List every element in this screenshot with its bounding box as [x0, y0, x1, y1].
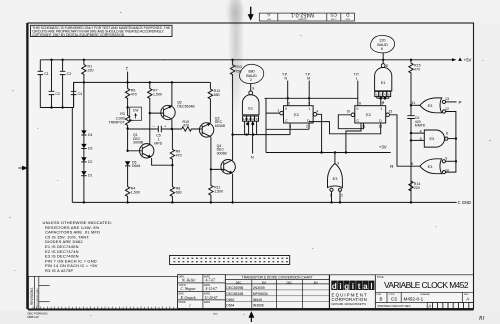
svg-text:1,500: 1,500 — [214, 190, 223, 194]
svg-text:M: M — [307, 77, 310, 81]
test point N — [282, 72, 288, 105]
svg-text:9: 9 — [445, 157, 447, 161]
svg-text:5: 5 — [308, 102, 310, 106]
svg-text:CW: CW — [133, 109, 139, 113]
svg-text:DATE: DATE — [204, 301, 211, 304]
flip-flop E2b — [347, 101, 393, 128]
capacitor C3 — [60, 60, 71, 108]
svg-text:DEC: DEC — [236, 280, 242, 284]
svg-text:D664: D664 — [226, 304, 234, 308]
resistor R1 — [82, 60, 94, 83]
svg-text:13: 13 — [389, 110, 393, 114]
nand gate E3a output P — [411, 97, 449, 113]
svg-text:R3 IS A #275P: R3 IS A #275P — [45, 268, 74, 273]
svg-text:11: 11 — [412, 101, 416, 105]
wire E2a pin4 loop to +3V — [317, 114, 322, 152]
resistor R5 — [125, 82, 136, 107]
wire E2b pin10 couple to pin11 — [338, 115, 363, 129]
svg-text:E3: E3 — [428, 165, 433, 169]
svg-text:C1: C1 — [44, 72, 49, 76]
svg-text:+5V: +5V — [464, 58, 472, 63]
svg-text:REVISIONS: REVISIONS — [30, 288, 34, 305]
svg-text:TRIMPOT: TRIMPOT — [109, 121, 126, 125]
svg-text:COPYRIGHT 1967 BY DIGITAL EQUI: COPYRIGHT 1967 BY DIGITAL EQUIPMENT CORP… — [32, 33, 125, 37]
svg-text:M452-0-1: M452-0-1 — [404, 297, 424, 302]
test point L — [354, 72, 360, 105]
node +5V arrow terminal — [452, 58, 472, 63]
wire P output — [446, 100, 462, 105]
svg-text:C. Wagner: C. Wagner — [181, 287, 197, 291]
svg-text:220: 220 — [88, 69, 94, 73]
wire ground bus — [72, 108, 456, 203]
svg-text:2N3009: 2N3009 — [253, 286, 265, 290]
svg-text:DEC6534B: DEC6534B — [177, 105, 195, 109]
svg-text:d: d — [332, 282, 337, 291]
diode D5 — [125, 160, 141, 168]
down arrow at top — [248, 7, 253, 20]
revisions sidebar — [29, 276, 178, 309]
svg-text:1,500: 1,500 — [131, 191, 140, 195]
resistor R12 — [208, 82, 220, 122]
svg-text:8: 8 — [359, 102, 361, 106]
resistor R8 — [170, 165, 181, 202]
svg-text:i: i — [352, 282, 354, 291]
svg-text:4-7-67: 4-7-67 — [206, 279, 216, 283]
svg-text:TITLE: TITLE — [377, 276, 384, 279]
svg-text:1,500: 1,500 — [153, 93, 162, 97]
svg-text:l: l — [370, 282, 372, 291]
svg-text:CS: CS — [391, 296, 397, 301]
svg-text:A: A — [428, 303, 431, 308]
svg-text:3: 3 — [337, 161, 339, 165]
svg-text:13: 13 — [445, 97, 449, 101]
wire E1b inputs to E2b pin 9 — [377, 97, 389, 106]
resistor R9 — [170, 129, 181, 165]
svg-text:6: 6 — [446, 132, 448, 136]
wire E2a pin3 stub — [289, 123, 291, 135]
svg-text:EIA: EIA — [262, 280, 266, 284]
svg-text:DRB 110: DRB 110 — [28, 315, 40, 319]
svg-text:TRANSISTOR & DIODE CONVERSION: TRANSISTOR & DIODE CONVERSION CHART — [242, 276, 313, 280]
svg-text:E2: E2 — [366, 112, 372, 117]
svg-text:220: 220 — [414, 186, 420, 190]
svg-text:E2: E2 — [294, 112, 300, 117]
svg-text:E3: E3 — [333, 177, 338, 181]
svg-text:DR | CHG NO | REV: DR | CHG NO | REV — [37, 288, 39, 308]
node T terminal — [126, 67, 129, 83]
title block — [375, 275, 473, 309]
transistor Q3 — [199, 116, 225, 169]
svg-text:12: 12 — [379, 125, 383, 129]
wire C5 to R10 — [161, 128, 181, 130]
svg-text:M452-0-1: M452-0-1 — [291, 12, 314, 18]
svg-text:IN3606: IN3606 — [253, 304, 264, 308]
svg-text:DEC6534B: DEC6534B — [226, 292, 244, 296]
svg-text:8: 8 — [411, 162, 413, 166]
svg-text:C3: C3 — [67, 72, 72, 76]
transistor Q2 — [150, 82, 196, 129]
svg-text:1: 1 — [277, 109, 279, 113]
transistor Q1 — [128, 113, 173, 165]
svg-text:11-20-67: 11-20-67 — [205, 296, 218, 300]
resistor R14 — [409, 181, 421, 191]
svg-text:6: 6 — [288, 102, 290, 106]
test point M — [305, 72, 311, 105]
svg-text:0: 0 — [357, 107, 359, 111]
svg-text:CS: CS — [330, 12, 337, 18]
left margin arrow — [19, 166, 27, 169]
svg-text:IN645: IN645 — [253, 298, 262, 302]
wire E2b pin11 to +3V — [346, 123, 361, 153]
wire cloud to E1 pin 8 — [251, 84, 255, 91]
flip-flop E2a — [277, 102, 318, 129]
svg-text:PRINTED CIRCUIT REV.: PRINTED CIRCUIT REV. — [378, 304, 412, 308]
wire oscillator output line — [233, 123, 290, 134]
wire test point bus — [265, 97, 358, 99]
capacitor C4 — [71, 82, 82, 107]
node +3V label — [379, 145, 387, 150]
svg-text:B: B — [380, 296, 383, 301]
transistor Q4 — [211, 135, 235, 203]
svg-text:E1: E1 — [248, 106, 253, 110]
svg-text:DEC3009B: DEC3009B — [226, 286, 244, 290]
svg-text:g: g — [344, 282, 349, 291]
wire E3d inputs to ground bus — [332, 192, 341, 203]
svg-text:CODE: CODE — [330, 17, 336, 19]
wire node N stub — [251, 121, 254, 159]
svg-text:1: 1 — [189, 304, 191, 308]
svg-text:4-12-67: 4-12-67 — [206, 287, 218, 291]
wire E2b pin13 to R net — [389, 115, 420, 166]
wire +3V line — [266, 152, 391, 154]
svg-text:VARIABLE CLOCK M452: VARIABLE CLOCK M452 — [384, 280, 469, 290]
wire E3d output riser — [334, 153, 336, 164]
svg-text:DEC: DEC — [287, 280, 293, 284]
svg-text:+3V: +3V — [379, 145, 387, 150]
svg-text:D664: D664 — [132, 164, 140, 168]
svg-text:EIA: EIA — [314, 280, 318, 284]
diode D4 — [81, 82, 92, 137]
svg-text:N: N — [251, 155, 254, 160]
trimpot R3 with CW box — [109, 107, 142, 128]
svg-text:C2: C2 — [55, 92, 60, 96]
resistor R15 — [409, 60, 421, 106]
svg-text:470: 470 — [414, 68, 420, 72]
resistor R11 — [209, 169, 223, 202]
capacitor C5 — [153, 123, 167, 145]
svg-text:REV.: REV. — [266, 17, 271, 19]
wire bias rail — [74, 82, 211, 107]
nand gate E3d — [328, 161, 344, 197]
svg-text:10: 10 — [347, 110, 351, 114]
resistor R4 — [125, 166, 139, 203]
nand gate E1b — [375, 53, 392, 97]
diode D1 — [81, 162, 92, 203]
svg-text:t: t — [358, 282, 361, 291]
wire capacitor bank bottom bus — [40, 107, 73, 109]
node R label — [390, 164, 394, 169]
svg-text:6: 6 — [386, 64, 388, 68]
nand gate E3b — [411, 130, 448, 148]
svg-text:1: 1 — [381, 107, 383, 111]
svg-text:MMFD: MMFD — [415, 124, 426, 128]
nand gate E3c — [411, 157, 449, 174]
svg-text:D: D — [346, 12, 350, 18]
chart pointer arrow — [249, 312, 253, 322]
zone tick marks along bottom border — [33, 307, 173, 310]
connector strip — [170, 256, 290, 265]
wire +5V top rail — [40, 59, 453, 61]
svg-text:6534B: 6534B — [215, 124, 226, 128]
svg-text:10: 10 — [445, 168, 449, 172]
svg-text:3009B: 3009B — [217, 151, 228, 155]
wire E3b output to common net — [448, 138, 456, 140]
svg-text:10: 10 — [251, 117, 255, 121]
svg-text:D4: D4 — [88, 133, 92, 137]
sheet border frame — [27, 23, 474, 310]
svg-text:N: N — [285, 77, 288, 81]
wire E3a pin12 to common net — [446, 112, 456, 173]
svg-text:C4: C4 — [78, 92, 83, 96]
svg-text:470: 470 — [176, 154, 182, 158]
svg-text:D2: D2 — [88, 160, 92, 164]
svg-text:E3: E3 — [429, 137, 434, 141]
node C GND label — [458, 200, 472, 205]
digital logo block — [330, 275, 376, 309]
signature block — [178, 274, 226, 308]
capacitor C2 — [49, 60, 60, 108]
svg-text:PROD.: PROD. — [179, 301, 187, 304]
wire E2a pin1 loop — [266, 98, 309, 152]
svg-text:MAYNARD, MASSACHUSETTS: MAYNARD, MASSACHUSETTS — [332, 303, 367, 306]
resistor R10 — [182, 120, 200, 131]
wire E2a pin2 couple to E2b pin12 — [309, 122, 381, 134]
svg-text:D3: D3 — [88, 147, 92, 151]
svg-text:0: 0 — [285, 107, 287, 111]
svg-text:W. Heller: W. Heller — [182, 279, 196, 283]
svg-text:MFD: MFD — [154, 142, 162, 146]
resistor R13 — [230, 60, 242, 135]
svg-text:a: a — [363, 282, 368, 291]
note revision mark R1 — [478, 316, 485, 322]
annotation 220 BAUD cloud — [370, 35, 394, 52]
svg-text:E3: E3 — [428, 104, 433, 108]
conversion chart — [225, 275, 329, 309]
notes text block — [43, 220, 113, 273]
svg-text:SIZE: SIZE — [345, 17, 350, 19]
svg-text:P: P — [459, 100, 462, 105]
diode D3 — [81, 135, 92, 151]
svg-text:2: 2 — [341, 194, 343, 198]
capacitor C1 — [38, 60, 49, 108]
svg-text:R1: R1 — [478, 316, 485, 322]
svg-text:9: 9 — [382, 100, 384, 104]
annotation 880 BAUD cloud — [239, 64, 263, 83]
wire E1a input pins to oscillator line — [245, 121, 257, 134]
top rotated header block — [259, 12, 354, 22]
svg-text:L: L — [356, 77, 358, 81]
svg-text:CORPORATION: CORPORATION — [332, 297, 368, 302]
svg-text:2: 2 — [306, 125, 308, 129]
resistor R7 — [148, 82, 162, 113]
svg-text:680: 680 — [176, 191, 182, 195]
nand gate E1a — [242, 91, 259, 121]
svg-text:A: A — [466, 296, 469, 301]
svg-text:D1: D1 — [88, 174, 92, 178]
svg-text:i: i — [339, 282, 341, 291]
svg-text:C GND: C GND — [458, 200, 472, 205]
svg-text:2: 2 — [250, 78, 252, 82]
svg-text:470: 470 — [131, 93, 137, 97]
svg-text:8: 8 — [252, 87, 254, 91]
note DEC form number — [28, 312, 49, 319]
svg-text:12: 12 — [445, 107, 449, 111]
wire trimpot to C5 line — [128, 128, 159, 150]
svg-text:470: 470 — [183, 124, 189, 128]
diode D2 — [81, 149, 92, 164]
svg-text:3009B: 3009B — [133, 141, 144, 145]
svg-text:680: 680 — [214, 93, 220, 97]
svg-text:R. Gmyrek: R. Gmyrek — [180, 296, 197, 300]
svg-text:1: 1 — [309, 107, 311, 111]
capacitor C6 — [407, 105, 425, 202]
svg-text:E1: E1 — [381, 81, 386, 85]
svg-text:T: T — [126, 67, 129, 72]
svg-text:MPS6534: MPS6534 — [253, 292, 268, 296]
proprietary notice box — [31, 25, 173, 37]
svg-text:D662: D662 — [226, 298, 234, 302]
wire E3c pin9 to common net — [446, 160, 456, 162]
